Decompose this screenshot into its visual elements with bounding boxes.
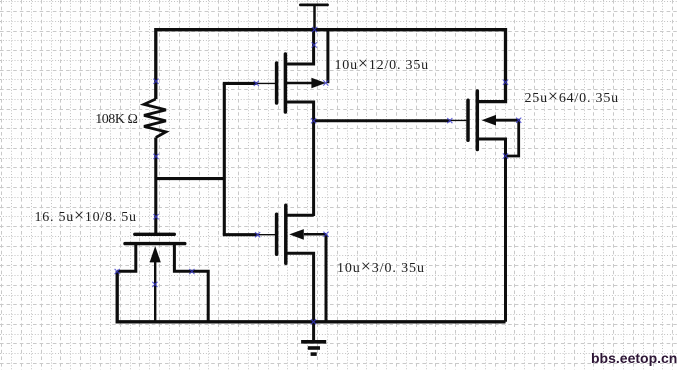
label M3 value <box>525 91 619 107</box>
M4 gate bar <box>135 233 175 236</box>
label R1 value <box>95 112 137 128</box>
M3 bulk line and loop to drain <box>496 120 519 156</box>
ground bar 1 <box>301 340 326 344</box>
M4 bulk arrow <box>150 246 161 262</box>
M4 right tap <box>174 244 208 322</box>
M2 bulk arrow <box>289 229 304 240</box>
node M4 gate pin <box>153 214 158 219</box>
M3 channel bar <box>476 91 480 150</box>
node M2 bulk corner <box>323 232 328 237</box>
junction X markers <box>115 27 522 324</box>
wire bottom ground rail <box>117 271 505 354</box>
node M1 gate pin <box>254 81 259 86</box>
node output corner <box>311 118 316 123</box>
label M2 value <box>337 261 425 277</box>
watermark bbs.eetop.cn <box>591 350 677 366</box>
node M3 drain-bulk join <box>503 153 508 158</box>
M4 channel bar <box>125 242 185 245</box>
node M3 bulk corner <box>516 118 521 123</box>
wire top rail with left drop to resistor and right drop to M3 source <box>156 30 506 102</box>
M2 channel bar <box>284 205 288 263</box>
node M3 gate pin <box>447 118 452 123</box>
wire output node: M1 drain to M3 gate and down to M2 drain <box>314 120 450 217</box>
node VDD stem joint <box>312 42 317 47</box>
M4 left tap <box>117 244 136 272</box>
ground stem <box>312 322 315 340</box>
wire left vertical bus <box>223 83 226 234</box>
wire M2 gate <box>223 233 258 236</box>
M1 gate bar <box>275 63 279 103</box>
M2 gate stub <box>258 234 276 236</box>
wire M2 bulk down to ground rail <box>325 234 328 321</box>
wire node horizontal resistor to left bus <box>156 177 225 180</box>
node M4 right tap joint <box>189 269 194 274</box>
node M1 bulk tip <box>323 80 328 85</box>
M3 gate stub <box>450 119 467 121</box>
node resistor top pin <box>153 79 158 84</box>
junction ground-rail <box>311 319 316 324</box>
wire M1 gate <box>223 82 257 85</box>
ground bar 3 <box>311 352 317 356</box>
M2 gate bar <box>275 214 279 254</box>
resistor R1 108K zigzag <box>144 99 166 138</box>
wire resistor bottom to M4 gate <box>154 138 157 235</box>
M2 drain L up <box>286 214 314 217</box>
M1 source L to rail <box>285 30 313 64</box>
label M1 value <box>335 58 429 74</box>
node M4 left tap corner <box>115 269 120 274</box>
transistor M3 PMOS 25ux64 <box>450 91 519 322</box>
node M3 source wire joint <box>503 80 508 85</box>
power VDD bar <box>300 4 327 7</box>
M1 drain L down <box>285 102 313 121</box>
transistor M2 NMOS 10ux3 <box>258 205 326 321</box>
node M4 bulk pin <box>152 282 157 287</box>
M1 bulk line <box>285 82 312 85</box>
wire M1 bulk to rail <box>326 30 329 84</box>
M2 bulk line <box>304 233 326 236</box>
junction VDD-rail <box>312 27 317 32</box>
M3 bulk arrow <box>482 115 496 126</box>
node resistor bottom pin <box>153 154 158 159</box>
M3 drain L down to ground rail <box>477 139 505 322</box>
M1 bulk arrow <box>311 78 325 89</box>
M4 bulk line to ground rail <box>154 261 156 322</box>
M2 source L down to ground rail <box>286 253 314 321</box>
M3 gate bar <box>466 100 470 140</box>
M1 gate stub <box>257 82 276 84</box>
node M2 gate pin <box>255 232 260 237</box>
transistor M1 PMOS 10ux12 <box>257 30 328 121</box>
label M4 value <box>35 210 137 226</box>
wire VDD stem <box>313 6 316 30</box>
M1 channel bar <box>284 54 288 112</box>
transistor M4 MOS-cap 16.5ux10 (rotated) <box>117 234 208 321</box>
ground bar 2 <box>308 346 320 350</box>
